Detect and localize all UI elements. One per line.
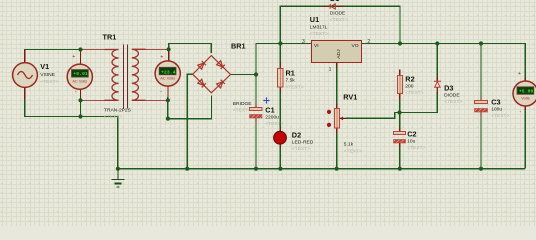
svg-text:<TEXT>: <TEXT> bbox=[405, 90, 423, 96]
pin meter3 top bbox=[524, 78, 526, 81]
wire bridge right output to U1 VI bbox=[231, 44, 312, 75]
svg-text:-: - bbox=[520, 109, 522, 115]
svg-text:5.1k: 5.1k bbox=[344, 141, 354, 147]
capacitor C1 (2200u polarized) bbox=[250, 97, 270, 118]
resistor R2 bbox=[398, 76, 403, 94]
wire primary top: V1 top to TR1 primary top bbox=[25, 50, 81, 57]
label C2 bbox=[407, 130, 425, 151]
svg-text:C1: C1 bbox=[265, 105, 274, 114]
svg-text:R1: R1 bbox=[286, 68, 295, 77]
node ADJ net bbox=[397, 110, 401, 114]
pin C1 top/bottom stubs bbox=[255, 104, 257, 108]
svg-text:3: 3 bbox=[302, 39, 305, 45]
svg-text:<TEXT>: <TEXT> bbox=[444, 99, 462, 105]
wire RV1 bottom to bus bbox=[336, 128, 338, 169]
svg-text:10u: 10u bbox=[407, 138, 415, 144]
svg-text:<TEXT>: <TEXT> bbox=[344, 149, 362, 155]
pin R1 stubs bbox=[279, 63, 281, 69]
diode top-left (L to T) bbox=[198, 61, 206, 69]
node meter2 + tap bbox=[167, 47, 171, 51]
svg-text:<TEXT>: <TEXT> bbox=[40, 79, 58, 85]
wire C2 column bbox=[399, 113, 401, 131]
svg-text:BRIDGE: BRIDGE bbox=[233, 101, 252, 107]
svg-text:-: - bbox=[160, 89, 162, 95]
label BR1 bbox=[231, 42, 252, 114]
bridge rectifier BR1 bbox=[193, 56, 231, 93]
node bus RV1 bbox=[335, 167, 339, 171]
plus marker bbox=[263, 97, 270, 104]
svg-text:LED-RED: LED-RED bbox=[292, 140, 314, 146]
svg-text:+: + bbox=[160, 54, 163, 60]
diode bottom-right (B to R) bbox=[217, 80, 225, 88]
resistor R1 bbox=[278, 69, 284, 88]
svg-text:BR1: BR1 bbox=[231, 42, 246, 51]
wire U1 ADJ pin to RV1 top bbox=[336, 63, 338, 109]
pin V1 top bbox=[24, 50, 26, 63]
label RV1 bbox=[343, 93, 362, 155]
svg-text:DIODE: DIODE bbox=[444, 92, 460, 98]
voltmeter DC (output) bbox=[513, 71, 536, 115]
pin R2 stubs bbox=[399, 70, 401, 76]
pin RV1 stubs bbox=[336, 104, 338, 109]
svg-text:D2: D2 bbox=[292, 131, 301, 140]
capacitor C2 (10u polarized) bbox=[394, 132, 406, 144]
ground bbox=[112, 169, 125, 187]
core bbox=[123, 45, 125, 109]
node bus C3 bbox=[479, 167, 483, 171]
wire C3 column bbox=[480, 44, 482, 100]
label D2 bbox=[292, 131, 314, 153]
wire ground bus bbox=[118, 168, 525, 170]
svg-text:+0.01: +0.01 bbox=[73, 71, 88, 77]
svg-text:+: + bbox=[518, 71, 521, 77]
wire secondary top: TR1 to meter2 junction and bridge top bbox=[169, 44, 212, 54]
label TR1 bbox=[103, 33, 132, 121]
wire meter3 bottom to bus bbox=[524, 106, 526, 169]
label R1 bbox=[286, 68, 304, 90]
svg-text:TRAN-2P2S: TRAN-2P2S bbox=[104, 108, 132, 114]
wire D1 protection loop over U1 bbox=[280, 6, 400, 43]
svg-text:200: 200 bbox=[405, 83, 413, 89]
svg-text:C2: C2 bbox=[407, 130, 416, 139]
node bus C2 bbox=[398, 167, 402, 171]
wire RV1 wiper to ADJ node bbox=[346, 92, 438, 118]
label C3 bbox=[491, 97, 509, 119]
label R2 bbox=[405, 74, 423, 96]
svg-text:<TEXT>: <TEXT> bbox=[292, 146, 310, 152]
node meter2 to bridge bottom bbox=[166, 117, 170, 121]
transformer TR1 bbox=[105, 45, 146, 109]
svg-text:2200u: 2200u bbox=[265, 115, 279, 121]
potentiometer RV1 bbox=[327, 109, 346, 129]
pin TR1 long pins bbox=[81, 49, 169, 100]
node meter1 + tap bbox=[78, 47, 82, 51]
pin meter1 top bbox=[80, 50, 82, 65]
label V1 bbox=[40, 62, 58, 85]
voltmeter AC (secondary) bbox=[155, 54, 180, 95]
svg-text:V1: V1 bbox=[40, 62, 49, 71]
svg-text:AC Volts: AC Volts bbox=[72, 78, 87, 83]
svg-text:<TEXT>: <TEXT> bbox=[330, 17, 348, 23]
svg-text:<TEXT>: <TEXT> bbox=[310, 31, 328, 37]
wire VO rail to meter3 bbox=[362, 44, 525, 82]
svg-text:R2: R2 bbox=[405, 74, 414, 83]
svg-text:LM317L: LM317L bbox=[310, 25, 328, 31]
wire R2 bottom to ADJ node bbox=[399, 94, 401, 113]
wire bridge left corner to ground bus bbox=[187, 74, 193, 169]
secondary winding bbox=[132, 49, 146, 100]
svg-text:<TEXT>: <TEXT> bbox=[233, 108, 251, 114]
svg-text:Volts: Volts bbox=[521, 96, 529, 101]
pin meter2 bottom bbox=[167, 86, 169, 100]
diode D1 (protection over U1) bbox=[322, 4, 344, 9]
diode D3 bbox=[434, 81, 441, 93]
svg-text:AC Volts: AC Volts bbox=[160, 75, 175, 80]
component pin stubs (dark red) bbox=[25, 49, 526, 148]
svg-text:+: + bbox=[72, 54, 75, 60]
wire meter2 bottom to bridge bottom corner bbox=[168, 96, 212, 119]
node VO rail / D3 bbox=[435, 41, 439, 45]
svg-text:<TEXT>: <TEXT> bbox=[491, 113, 509, 119]
node bus C1 bbox=[254, 167, 258, 171]
svg-text:<TEXT>: <TEXT> bbox=[265, 121, 283, 127]
pin meter1 bottom bbox=[80, 89, 82, 100]
voltmeter AC (primary) bbox=[67, 54, 92, 95]
node meter1 - / TR1 primary bottom bbox=[78, 98, 82, 102]
svg-text:7.5k: 7.5k bbox=[286, 78, 296, 84]
svg-text:RV1: RV1 bbox=[343, 93, 357, 102]
pin D3 top stub bbox=[436, 77, 438, 81]
svg-text:1: 1 bbox=[329, 67, 332, 73]
svg-text:VSINE: VSINE bbox=[40, 72, 55, 78]
wire meter1 bottom tap bbox=[80, 97, 82, 117]
pin C3 top/bottom stubs bbox=[480, 97, 482, 101]
diode bottom-left (L to B) bbox=[198, 79, 206, 87]
node bridge + output bbox=[254, 72, 258, 76]
svg-text:<TEXT>: <TEXT> bbox=[407, 145, 425, 151]
node VO rail / R2 / D1 bbox=[398, 41, 402, 45]
node VI rail / R1 / D1 bbox=[278, 41, 282, 45]
svg-text:D1: D1 bbox=[330, 0, 339, 3]
pin meter2 top bbox=[168, 49, 170, 61]
pin D2 LED stubs bbox=[279, 127, 281, 132]
label D1 bbox=[330, 0, 348, 23]
primary winding bbox=[105, 50, 119, 101]
wire R1 top bbox=[279, 44, 281, 69]
node bus D2 bbox=[278, 167, 282, 171]
node V1 bottom rail bbox=[78, 114, 82, 118]
svg-text:VI: VI bbox=[314, 43, 319, 49]
source V1 bbox=[13, 63, 38, 88]
svg-text:U1: U1 bbox=[310, 15, 319, 24]
wire C1 column bbox=[255, 75, 257, 107]
svg-text:C3: C3 bbox=[491, 97, 500, 106]
svg-text:<TEXT>: <TEXT> bbox=[286, 84, 304, 90]
node bus bridge- bbox=[185, 167, 189, 171]
pin C2 top/bottom stubs bbox=[399, 128, 401, 132]
svg-text:TR1: TR1 bbox=[103, 33, 117, 42]
wire R1 bottom to LED D2 bbox=[279, 87, 281, 132]
svg-text:+5.00: +5.00 bbox=[519, 89, 534, 95]
node bus ground bbox=[116, 167, 120, 171]
capacitor C3 (100u polarized) bbox=[475, 101, 488, 113]
svg-text:<TEXT>: <TEXT> bbox=[104, 114, 122, 120]
svg-text:-: - bbox=[75, 89, 77, 95]
diode top-right (T to R) bbox=[217, 61, 225, 69]
svg-text:2: 2 bbox=[367, 39, 370, 45]
wire D3 top bbox=[436, 44, 438, 81]
pin V1 bottom bbox=[24, 88, 26, 100]
node VO rail / C3 bbox=[479, 41, 483, 45]
node meter2 - / TR1 secondary bottom bbox=[166, 98, 170, 102]
label D3 bbox=[444, 83, 462, 105]
wire primary bottom: V1 bottom to ground drop bbox=[25, 93, 118, 169]
pin meter3 bottom bbox=[524, 106, 526, 110]
label C1 bbox=[265, 105, 283, 127]
regulator U1 LM317L bbox=[302, 39, 370, 73]
svg-text:ADJ: ADJ bbox=[336, 49, 342, 59]
svg-text:DIODE: DIODE bbox=[330, 10, 346, 16]
wire LED D2 to bus bbox=[279, 144, 281, 169]
svg-text:VO: VO bbox=[352, 43, 359, 49]
LED D2 bbox=[274, 131, 287, 144]
svg-text:D3: D3 bbox=[444, 83, 453, 92]
label U1 bbox=[310, 15, 328, 37]
svg-text:100u: 100u bbox=[491, 107, 502, 113]
